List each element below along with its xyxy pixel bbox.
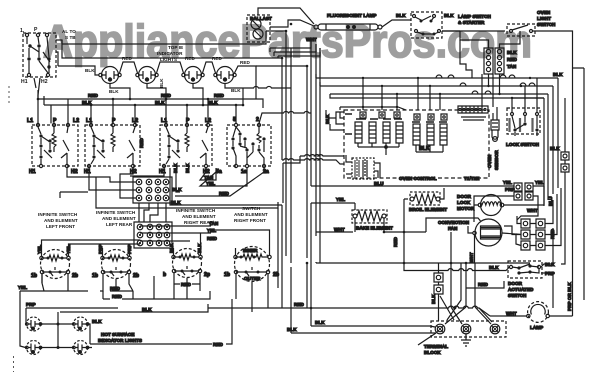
indicator light DS4 — [214, 67, 236, 84]
svg-text:2b: 2b — [72, 273, 78, 279]
SW1 blades — [27, 37, 50, 73]
svg-text:1,: 1, — [20, 28, 25, 34]
svg-text:RED: RED — [207, 236, 217, 241]
wire BLK into tb lugs — [418, 326, 436, 345]
svg-text:T1/T2E: T1/T2E — [464, 176, 479, 181]
relay K5 — [413, 124, 420, 145]
svg-text:BLK: BLK — [85, 68, 95, 73]
svg-text:2: 2 — [256, 117, 259, 123]
bake element E5 — [352, 210, 387, 223]
svg-text:INDICATOR LIGHTS: INDICATOR LIGHTS — [98, 338, 142, 343]
wire into relays line1 — [283, 155, 344, 203]
svg-text:5a: 5a — [216, 169, 222, 175]
wire RED stub door area — [466, 281, 504, 288]
wire RED bottom long — [282, 306, 492, 322]
svg-text:1b: 1b — [31, 273, 37, 279]
wire riser C x291 — [290, 48, 292, 333]
svg-text:AND ELEMENT: AND ELEMENT — [182, 214, 216, 219]
wire YEL E1 risers — [42, 240, 141, 256]
svg-text:RED: RED — [478, 282, 488, 287]
wire cn5 feeds — [500, 186, 544, 220]
svg-text:YEL: YEL — [336, 197, 345, 202]
wire BLK DS3 drop — [193, 84, 203, 105]
wire YEL from CN2 left — [60, 192, 88, 198]
terminal block TB1 — [431, 321, 506, 337]
svg-text:BLK: BLK — [171, 200, 181, 205]
convection fan M2 — [473, 219, 502, 246]
wire right front loop — [278, 205, 282, 308]
wire E1 bottom drops — [42, 273, 268, 312]
connector CN6 column B — [536, 219, 545, 250]
wire motor leads — [474, 186, 544, 222]
svg-text:INNER: INNER — [243, 248, 258, 253]
wire into relays line2 — [282, 159, 344, 164]
svg-text:OVEN CONTROL: OVEN CONTROL — [399, 176, 437, 181]
wire TAN YEL RED to elements — [140, 226, 211, 241]
svg-text:TAN: TAN — [204, 175, 214, 180]
element E2 left rear — [101, 250, 131, 279]
SW1 internal contacts — [27, 44, 50, 68]
hot surface indicator N4 — [73, 341, 89, 355]
right border risers — [573, 68, 585, 300]
svg-text:P: P — [112, 118, 116, 124]
oven light switch S3 — [507, 24, 535, 36]
label DOOR LOCK MOTOR — [457, 194, 475, 211]
TB1 lug L1 — [435, 324, 445, 334]
connector sq TB B — [434, 285, 443, 294]
svg-text:LEFT FRONT: LEFT FRONT — [46, 224, 75, 229]
svg-text:TAN: TAN — [209, 221, 219, 226]
wire H1 box3 down — [164, 168, 176, 173]
infinite switch box 3 (right rear) — [160, 123, 212, 167]
svg-text:AND ELEMENT: AND ELEMENT — [102, 216, 136, 221]
wire E3 risers — [174, 233, 212, 255]
svg-text:BLK: BLK — [82, 100, 92, 105]
SW1 terminal 1 — [25, 33, 28, 36]
svg-text:RED: RED — [112, 294, 122, 299]
wire E3 RED label wire — [174, 283, 200, 285]
connector grid CN2 — [134, 222, 172, 248]
wire riser box4 b — [256, 99, 311, 123]
svg-text:AND ELEMENT: AND ELEMENT — [44, 218, 78, 223]
element E4 right front dual — [234, 247, 271, 282]
svg-text:RED: RED — [507, 57, 517, 62]
wire H2 box1 to CN1 — [67, 168, 136, 182]
wire RED E2 drop — [100, 274, 133, 291]
relay K3 — [383, 122, 390, 143]
wire transformer taps — [346, 155, 380, 178]
wire H2 box2 to CN1 — [120, 168, 136, 198]
svg-text:RED: RED — [122, 56, 132, 61]
svg-text:5: 5 — [233, 117, 236, 123]
svg-text:PRP OR BLK: PRP OR BLK — [567, 282, 572, 311]
svg-text:SWITCH: SWITCH — [242, 206, 261, 211]
svg-text:RED: RED — [294, 302, 304, 307]
wire bottom oven loop — [291, 232, 530, 333]
svg-text:b: b — [163, 272, 166, 278]
svg-text:INFINITE SWITCH: INFINITE SWITCH — [38, 212, 78, 217]
transformer T1 — [352, 158, 374, 179]
label OVEN SENSOR vertical — [487, 150, 499, 170]
junction dots risers — [281, 23, 313, 310]
wire from SW1 top bus — [56, 40, 256, 66]
label DOOR ACTUATED SWITCH — [508, 281, 534, 298]
svg-text:2b: 2b — [133, 273, 139, 279]
svg-text:BLK: BLK — [185, 163, 190, 173]
TB1 lug L2 — [490, 324, 500, 334]
svg-text:BLU: BLU — [548, 196, 553, 206]
wire RED bus upper — [38, 98, 256, 100]
svg-text:1b: 1b — [92, 273, 98, 279]
wire L1 riser box3 — [165, 99, 167, 123]
svg-text:CONVECTION: CONVECTION — [438, 220, 470, 225]
wire BLK DS4 drop — [225, 84, 291, 105]
relay bank1 terminals — [360, 112, 400, 118]
wire E4 risers — [211, 230, 270, 255]
svg-text:BLK: BLK — [231, 88, 241, 93]
svg-text:YEL: YEL — [503, 180, 512, 185]
label CONVECTION FAN — [438, 220, 470, 231]
wire WHT to lamp — [490, 315, 500, 317]
wire cn3 feeds left — [442, 31, 520, 48]
relay K4 — [396, 122, 403, 143]
relay K2 — [369, 122, 376, 143]
svg-text:BLK: BLK — [325, 114, 330, 124]
svg-text:WHT: WHT — [527, 208, 538, 213]
label L1 board — [345, 114, 352, 134]
junction dots on buses — [37, 98, 245, 107]
wire lamp to starter switch — [382, 20, 411, 27]
svg-text:RED: RED — [214, 93, 224, 98]
label SWITCH AND ELEMENT RIGHT FRONT — [234, 206, 268, 223]
selector switch SW1 (top-left control box) — [23, 33, 56, 77]
svg-text:SENSOR: SENSOR — [494, 150, 499, 170]
relay bank1 tiny labels — [356, 118, 402, 120]
svg-text:LEFT REAR: LEFT REAR — [106, 222, 133, 227]
svg-text:OVEN: OVEN — [537, 10, 551, 15]
wire broil riser — [355, 203, 404, 232]
wire cn6 jumpers — [504, 188, 561, 246]
infinite switch box 2 (left rear) — [85, 123, 140, 167]
svg-text:H1: H1 — [84, 169, 91, 175]
wire left entry to board — [326, 110, 344, 130]
infinite switch box 4 (right front dual) — [227, 123, 271, 167]
wire right bundle drops — [330, 78, 558, 206]
connector CN5 pair B — [525, 183, 533, 200]
svg-text:BLU: BLU — [374, 181, 384, 186]
svg-text:BLK: BLK — [109, 89, 119, 94]
wire bank1 internal — [358, 143, 399, 155]
svg-text:RED: RED — [110, 286, 120, 291]
wire right sq feeds — [561, 98, 565, 264]
svg-text:L2: L2 — [73, 118, 79, 124]
svg-text:YEL: YEL — [206, 181, 215, 186]
svg-text:INDICATOR: INDICATOR — [157, 51, 183, 56]
svg-text:BLK: BLK — [208, 100, 218, 105]
label LAMP SWITCH AND STARTER — [458, 14, 492, 25]
svg-text:H1: H1 — [29, 169, 36, 175]
relay bank2 terminals — [414, 114, 447, 120]
indicator light DS1 — [99, 67, 121, 84]
svg-text:P: P — [53, 118, 57, 124]
oven control board U1 — [344, 110, 489, 178]
lock switch S4 — [507, 108, 540, 136]
wire indicators chain — [41, 312, 93, 348]
wire PRP bottom — [20, 291, 118, 348]
wire diag braid into lugs — [440, 290, 491, 324]
svg-text:DOOR: DOOR — [457, 194, 472, 199]
svg-text:BLK: BLK — [172, 187, 182, 192]
connector CN3 (BLK RED TAN) — [484, 48, 504, 74]
junction dots bottom — [383, 231, 406, 265]
wire BLK long under grids — [96, 173, 278, 208]
wire BLU — [311, 185, 500, 187]
svg-text:RED: RED — [139, 138, 144, 148]
wire RED 2a down — [175, 168, 264, 196]
door actuated switch S5 — [508, 261, 542, 278]
svg-text:RED: RED — [212, 56, 222, 61]
infinite switch box 1 (left front) — [32, 123, 78, 167]
svg-text:BLK: BLK — [507, 50, 517, 55]
svg-text:H1: H1 — [21, 79, 28, 85]
wire L1 riser box1 — [37, 90, 39, 123]
svg-text:BLK: BLK — [550, 146, 560, 151]
svg-text:ACTUATED: ACTUATED — [508, 287, 534, 292]
svg-text:BLK: BLK — [419, 146, 430, 152]
svg-text:& STARTER: & STARTER — [458, 20, 485, 25]
SW1 terminal H1 — [27, 73, 30, 76]
wire riser B x286 — [266, 31, 286, 256]
svg-text:TOP IE: TOP IE — [168, 45, 183, 50]
wire oven light switch to right riser — [533, 31, 573, 290]
door lock motor M1 — [478, 195, 504, 216]
wire BLK box row to left — [130, 173, 282, 205]
wire BLK into DS1 — [58, 66, 99, 75]
wire riser G x320 — [319, 48, 321, 263]
relay K6 — [427, 124, 434, 145]
svg-text:BLK: BLK — [431, 294, 436, 304]
relay bank2 tiny labels — [412, 121, 447, 123]
wire tb sq feeds — [438, 263, 440, 321]
wire RED DS1 to DS2 — [120, 62, 138, 73]
svg-text:LAMP: LAMP — [530, 325, 543, 330]
svg-text:H2: H2 — [41, 79, 48, 85]
label OVEN LIGHT SWITCH — [537, 10, 556, 27]
svg-text:YEL: YEL — [207, 228, 216, 233]
label cn4 smudge — [461, 117, 486, 120]
label INFINITE SWITCH AND ELEMENT LEFT REAR — [96, 210, 136, 227]
svg-text:LIGHT: LIGHT — [537, 16, 551, 21]
wire RED long mid — [103, 291, 210, 299]
wire YEL oven — [311, 202, 355, 204]
wire riser box4 a — [235, 105, 237, 123]
svg-text:RED: RED — [219, 191, 229, 196]
wire bundle right top — [316, 74, 558, 94]
svg-text:BLK: BLK — [197, 243, 202, 253]
svg-text:H2: H2 — [71, 169, 78, 175]
wire P riser box1 — [44, 96, 51, 123]
svg-text:L2: L2 — [205, 118, 211, 124]
svg-text:RED: RED — [185, 56, 195, 61]
svg-text:HOT SURFACE: HOT SURFACE — [101, 332, 134, 337]
svg-text:FLUORESCENT LAMP: FLUORESCENT LAMP — [327, 13, 377, 18]
svg-text:BLK: BLK — [155, 100, 165, 105]
svg-text:RED: RED — [181, 282, 191, 287]
SW1 terminal H2 — [46, 73, 49, 76]
junction dots tb — [450, 262, 468, 310]
svg-text:RIGHT FRONT: RIGHT FRONT — [234, 218, 266, 223]
label HOT SURFACE INDICATOR LIGHTS — [98, 332, 142, 343]
svg-text:OUTER: OUTER — [244, 276, 261, 281]
svg-text:SWITCH: SWITCH — [508, 293, 527, 298]
wire drops from bundle to oven control — [363, 78, 440, 110]
svg-text:MOTOR: MOTOR — [457, 206, 475, 211]
svg-text:WHT: WHT — [334, 227, 345, 232]
svg-text:RED: RED — [240, 60, 250, 65]
connector sq TB A — [434, 273, 443, 282]
svg-text:BLK: BLK — [444, 13, 454, 18]
svg-text:OVEN: OVEN — [487, 154, 492, 168]
svg-text:L1: L1 — [86, 118, 92, 124]
wire S5 leads — [541, 228, 553, 308]
wire bank2 internal — [416, 145, 443, 152]
wire L1 riser box2 — [90, 105, 92, 123]
svg-text:SWITCH: SWITCH — [537, 22, 556, 27]
wire SW1 to cooktop lights — [34, 78, 40, 99]
svg-text:BLK: BLK — [92, 319, 102, 324]
wire top feeds to risers — [62, 31, 320, 58]
svg-text:LIGHTS: LIGHTS — [160, 57, 177, 62]
hot surface indicator N2 — [73, 317, 89, 331]
relay K1 — [355, 122, 362, 143]
wire riser A x282 — [256, 58, 282, 160]
svg-text:LOCK: LOCK — [457, 200, 471, 205]
wire starter to oven light switch — [442, 30, 505, 32]
wire TAN H2 box3 to 5a — [200, 168, 216, 180]
wire YEL box4 — [200, 168, 247, 186]
svg-text:AND ELEMENT: AND ELEMENT — [234, 212, 268, 217]
svg-text:DOOR: DOOR — [508, 281, 523, 286]
svg-text:RED: RED — [161, 93, 171, 98]
svg-text:P: P — [34, 27, 38, 33]
wire riser D x307 — [256, 66, 307, 308]
svg-text:1b: 1b — [224, 272, 230, 278]
svg-text:BLK: BLK — [287, 327, 297, 332]
oven sensor RT1 — [491, 107, 499, 141]
wire RED DS4 right — [235, 66, 257, 99]
svg-text:BAKE ELEMENT: BAKE ELEMENT — [356, 226, 393, 231]
wire bake to broil drop — [384, 188, 444, 263]
lamp switch and starter S2 — [411, 12, 442, 38]
svg-text:H1: H1 — [159, 169, 166, 175]
wire YEL bottom left — [20, 274, 88, 291]
wire riser E x311 — [310, 40, 312, 326]
svg-text:BLK: BLK — [553, 72, 563, 77]
wire P riser box3 — [186, 105, 188, 123]
svg-text:BLK: BLK — [315, 320, 325, 325]
SW1 terminal P — [36, 33, 39, 36]
svg-text:BROIL ELEMENT: BROIL ELEMENT — [409, 207, 447, 212]
svg-text:RED: RED — [393, 237, 398, 247]
connector CN5 pair A — [514, 183, 522, 200]
wire P riser box2 — [112, 99, 114, 123]
wire lock switch feeds — [512, 78, 544, 112]
relay K7 — [440, 124, 447, 145]
svg-text:S TB: S TB — [65, 35, 76, 40]
wire ballast to lamp — [258, 8, 314, 27]
fluorescent lamp FL1 — [314, 24, 382, 30]
oven lamp DS5 — [527, 302, 550, 323]
svg-text:YEL: YEL — [535, 180, 544, 185]
wire L2 riser box1 — [67, 99, 69, 123]
svg-text:BLK: BLK — [159, 78, 164, 88]
connector sq right D — [561, 164, 569, 172]
svg-text:RED: RED — [213, 342, 223, 347]
wire lamp leads — [500, 290, 573, 316]
wire verticals into tb — [451, 263, 475, 307]
wire WHT vertical — [450, 232, 452, 263]
svg-text:AL TO: AL TO — [62, 29, 76, 34]
svg-text:2p: 2p — [204, 272, 210, 278]
svg-text:L1: L1 — [161, 118, 167, 124]
svg-text:TERMINAL: TERMINAL — [424, 344, 448, 349]
ground symbol — [461, 334, 471, 346]
svg-text:BALLAST: BALLAST — [250, 16, 272, 21]
connector CN6 column A — [521, 219, 530, 250]
wire WHT bake — [316, 218, 355, 236]
svg-text:PRP: PRP — [26, 302, 36, 307]
wire CN1 to CN2 drops — [139, 203, 166, 222]
svg-text:YEL: YEL — [18, 285, 27, 290]
wire RED DS3 to DS4 — [203, 62, 216, 73]
svg-text:TAN: TAN — [507, 64, 517, 69]
svg-text:BLK: BLK — [396, 13, 406, 18]
broil element E6 — [410, 192, 440, 205]
connector grid CN1 — [133, 177, 172, 203]
svg-text:P: P — [186, 118, 190, 124]
element E3 right rear — [172, 249, 202, 278]
wire BLK below DS1 — [110, 84, 130, 99]
svg-text:WHT: WHT — [306, 37, 317, 42]
svg-text:1a: 1a — [241, 169, 247, 175]
wire fan leads — [426, 218, 521, 263]
wire L2 riser box3 — [207, 99, 209, 123]
wire BLK long bottom — [60, 304, 282, 312]
svg-text:L2: L2 — [132, 118, 138, 124]
connector row CN4 — [458, 106, 488, 113]
svg-text:INFINITE SWITCH: INFINITE SWITCH — [176, 208, 216, 213]
svg-text:LOCK SWITCH: LOCK SWITCH — [506, 142, 540, 147]
wire L2 riser box2 — [134, 105, 136, 123]
hot surface indicator N3 — [26, 341, 42, 355]
svg-text:INFINITE SWITCH: INFINITE SWITCH — [96, 210, 136, 215]
svg-text:PRP: PRP — [505, 187, 515, 192]
connector sq right C — [561, 152, 569, 160]
TB1 lug N — [461, 324, 471, 334]
label TERMINAL BLOCK — [424, 344, 448, 355]
svg-text:FAN: FAN — [448, 226, 458, 231]
wire BLK bus lower — [44, 104, 243, 106]
junction dots bundle — [362, 77, 531, 99]
SW1 terminal 3 — [45, 33, 48, 36]
element E1 left front — [40, 250, 70, 279]
indicator light DS3 — [182, 67, 204, 84]
label INFINITE SWITCH AND ELEMENT RIGHT REAR — [176, 208, 216, 225]
wire BLK S5 long left — [404, 263, 509, 271]
wire PRP E2 risers — [103, 248, 130, 256]
page edge dashes left — [9, 86, 14, 372]
wire BLK DS2 drop — [147, 84, 166, 99]
